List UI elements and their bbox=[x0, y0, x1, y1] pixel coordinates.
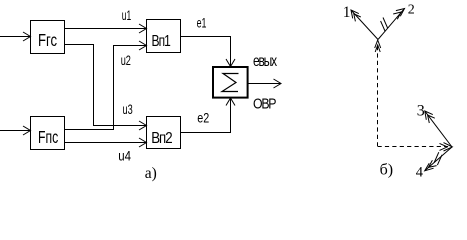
svg-text:ОВР: ОВР bbox=[253, 95, 276, 111]
block Fпс (box) bbox=[31, 117, 65, 150]
svg-text:4: 4 bbox=[416, 164, 424, 180]
label Вп1 bbox=[152, 31, 171, 49]
svg-text:Вп1: Вп1 bbox=[152, 31, 171, 49]
svg-text:е2: е2 bbox=[197, 110, 209, 125]
wire u3 (Fгс lower output, down to Вп2) bbox=[65, 45, 147, 131]
summator block Σ (box) bbox=[213, 67, 248, 98]
sigma symbol bbox=[222, 74, 239, 92]
label 4 bbox=[416, 164, 424, 180]
vector arrow 1 bbox=[351, 10, 378, 40]
wire e1 (Вп1 to summator top) bbox=[181, 37, 236, 67]
label 2 bbox=[408, 3, 415, 18]
svg-text:2: 2 bbox=[408, 3, 415, 18]
output wire евых bbox=[248, 79, 281, 88]
block Fгс (box) bbox=[31, 21, 65, 54]
block Вп2 (box) bbox=[147, 117, 181, 149]
label ОВР bbox=[253, 95, 276, 111]
label u1 bbox=[122, 9, 131, 23]
label u2 bbox=[121, 54, 131, 68]
vector arrow 4 (with double tick) bbox=[425, 147, 452, 171]
svg-text:Fпс: Fпс bbox=[38, 128, 59, 148]
axes figure: dashed vertical axis with up arrow bbox=[375, 40, 381, 146]
svg-text:u4: u4 bbox=[118, 147, 131, 163]
svg-text:б): б) bbox=[380, 162, 393, 179]
vector arrow 3 bbox=[425, 111, 452, 147]
wire u2 (Fпс upper output, up to Вп1) bbox=[65, 41, 147, 130]
label Вп2 bbox=[151, 130, 172, 147]
wire u1 (Fгс to Вп1) bbox=[65, 24, 147, 33]
svg-text:u1: u1 bbox=[122, 9, 131, 23]
label Fгс bbox=[38, 31, 57, 50]
svg-text:1: 1 bbox=[343, 4, 351, 21]
svg-text:Fгс: Fгс bbox=[38, 31, 57, 50]
svg-text:е1: е1 bbox=[197, 17, 207, 31]
label u3 bbox=[123, 103, 133, 117]
label u4 bbox=[118, 147, 131, 163]
block Вп1 (box) bbox=[147, 20, 181, 53]
caption а) bbox=[145, 165, 157, 182]
wire u4 (Fпс to Вп2) bbox=[65, 138, 147, 147]
svg-text:3: 3 bbox=[417, 103, 425, 120]
input wire 2 (into Fпс) bbox=[0, 126, 31, 135]
wire e2 (Вп2 to summator bottom) bbox=[181, 98, 236, 133]
svg-text:а): а) bbox=[145, 165, 157, 182]
label Fпс bbox=[38, 128, 59, 148]
label e1 bbox=[197, 17, 207, 31]
label 1 bbox=[343, 4, 351, 21]
label e2 bbox=[197, 110, 209, 125]
svg-text:u2: u2 bbox=[121, 54, 131, 68]
caption б) bbox=[380, 162, 393, 179]
svg-text:Вп2: Вп2 bbox=[151, 130, 172, 147]
axes figure: dashed horizontal axis with right arrow bbox=[378, 143, 453, 151]
svg-text:евых: евых bbox=[253, 52, 277, 70]
svg-text:u3: u3 bbox=[123, 103, 133, 117]
input wire 1 (into Fгс) bbox=[0, 32, 31, 41]
vector arrow 2 (with double tick) bbox=[378, 9, 405, 40]
label 3 bbox=[417, 103, 425, 120]
label евых bbox=[253, 52, 277, 70]
